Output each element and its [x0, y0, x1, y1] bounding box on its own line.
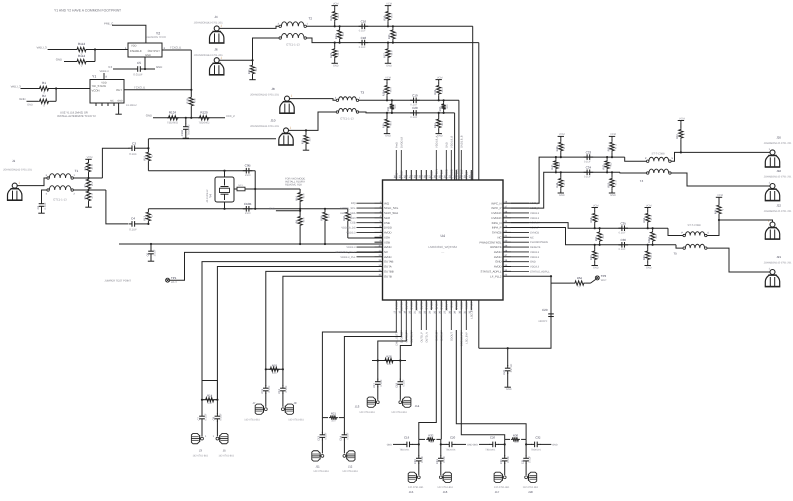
connector J9: [281, 401, 304, 422]
svg-text:ETC1-1-13: ETC1-1-13: [53, 199, 67, 202]
svg-text:TBD0402: TBD0402: [188, 124, 191, 136]
svg-text:R9: R9: [295, 219, 298, 223]
svg-text:R30: R30: [301, 139, 304, 144]
svg-text:R28: R28: [320, 215, 323, 220]
svg-text:0.1UF: 0.1UF: [204, 413, 207, 420]
svg-text:0.1UF: 0.1UF: [410, 116, 417, 119]
svg-text:C10B: C10B: [244, 202, 252, 206]
svg-text:OUTDB: OUTDB: [415, 302, 418, 311]
wire J3 group bar: [202, 381, 217, 400]
svg-text:NC1: NC1: [238, 184, 243, 187]
IC U4 bottom pin 28 GND: [449, 300, 454, 341]
svg-text:R27: R27: [383, 53, 386, 58]
note use Y1 or Y2: [57, 112, 96, 119]
svg-text:Y4: Y4: [209, 194, 213, 198]
svg-text:R26: R26: [383, 15, 386, 20]
svg-text:OUT: OUT: [116, 88, 122, 92]
connector J12: [342, 451, 358, 473]
svg-text:NC: NC: [530, 236, 534, 239]
svg-text:R47: R47: [551, 164, 554, 169]
resistor R32B: [419, 433, 441, 444]
svg-text:GND: GND: [146, 114, 152, 118]
capacitor C22: [503, 348, 513, 391]
svg-text:R124: R124: [169, 110, 177, 114]
svg-text:NC: NC: [110, 100, 114, 103]
svg-text:GND: GND: [156, 65, 162, 69]
svg-text:GND: GND: [56, 57, 62, 61]
resistor R26B: [378, 354, 401, 379]
svg-text:0.1UF: 0.1UF: [380, 379, 383, 386]
svg-text:R11: R11: [144, 155, 147, 160]
IC U4 bottom pin 17 DVDD: [394, 300, 399, 346]
svg-text:R2: R2: [42, 94, 46, 98]
IC U4 left pin 4 SDO: [350, 215, 391, 220]
svg-text:PreD: PreD: [395, 142, 398, 148]
svg-text:AVDD: AVDD: [384, 231, 392, 235]
svg-text:XOB: XOB: [384, 240, 390, 244]
svg-text:SYNCB: SYNCB: [492, 231, 502, 235]
wire to J13 group: [378, 330, 407, 361]
svg-text:TRI_STATE: TRI_STATE: [92, 84, 107, 88]
svg-text:GND: GND: [610, 194, 616, 197]
svg-text:GND: GND: [530, 261, 536, 264]
wire OUTBB to J7 group: [266, 271, 375, 369]
wire crystal top loop: [148, 139, 276, 177]
svg-text:JOHNSON142-0701-201: JOHNSON142-0701-201: [194, 54, 223, 57]
resistor R31: [387, 99, 397, 114]
svg-text:TP1: TP1: [171, 276, 177, 280]
svg-text:JOHNSON142-0701-201: JOHNSON142-0701-201: [764, 262, 792, 265]
wire XOB long line: [119, 243, 383, 245]
IC U4 bottom pin 32 LSD_BYPASS: [469, 300, 474, 319]
capacitor C4: [129, 217, 150, 232]
svg-text:J7: J7: [253, 401, 256, 405]
svg-text:GND: GND: [145, 54, 151, 57]
svg-text:UWIRE_SDA: UWIRE_SDA: [340, 212, 356, 215]
capacitor C34: [584, 166, 594, 179]
IC U4 right pin 44 INPA_N: [492, 220, 540, 225]
wire T4 top out to J20: [671, 151, 770, 161]
IC U4 bottom pin 27 SDOUT: [444, 300, 449, 314]
svg-text:J21: J21: [776, 255, 781, 259]
svg-text:VADJ_3: VADJ_3: [11, 84, 21, 88]
svg-text:142-0761-861: 142-0761-861: [408, 486, 424, 489]
svg-text:R24: R24: [335, 34, 338, 39]
svg-text:C20: C20: [450, 436, 456, 440]
svg-text:C18: C18: [361, 36, 367, 40]
svg-text:C26: C26: [490, 436, 496, 440]
IC U4 bottom pin 20 DVDD: [409, 300, 414, 343]
resistor R48: [556, 133, 566, 158]
svg-text:JOHNSON142-0701-201: JOHNSON142-0701-201: [250, 93, 279, 96]
IC U4 left pin 8 XOA: [375, 235, 391, 240]
transformer T1: [46, 169, 79, 202]
svg-text:LSD_BYP: LSD_BYP: [465, 332, 468, 344]
svg-text:OUTB: OUTB: [384, 274, 392, 278]
connector J1: [3, 159, 32, 200]
capacitor C6: [146, 244, 156, 261]
svg-text:1500: 1500: [245, 212, 251, 215]
svg-text:47.5: 47.5: [91, 193, 94, 199]
svg-text:47.5: 47.5: [563, 180, 566, 186]
svg-text:GND: GND: [450, 302, 453, 308]
svg-text:R36: R36: [513, 433, 519, 437]
resistor R9: [295, 215, 305, 244]
svg-text:SDIO_SDA: SDIO_SDA: [384, 211, 398, 215]
wire ch2 bottom line: [595, 244, 676, 246]
IC U4 top pin 62 NC: [404, 170, 409, 180]
IC U4 top pin 55 INPB_P: [439, 169, 444, 180]
svg-text:R7: R7: [84, 183, 87, 187]
wire LF_PLL2 loop: [479, 275, 552, 349]
wire T4 bottom out to J18: [671, 173, 770, 186]
wire to J11: [322, 330, 396, 418]
svg-text:AVDD: AVDD: [460, 302, 463, 309]
svg-text:DVDD: DVDD: [455, 302, 458, 309]
svg-text:C17: C17: [373, 382, 376, 387]
svg-text:C24: C24: [436, 459, 439, 464]
resistor R4: [84, 156, 94, 178]
svg-text:0.1UF: 0.1UF: [359, 30, 366, 33]
svg-text:C23: C23: [414, 459, 417, 464]
resistor R5: [84, 190, 94, 207]
svg-text:JOHNSON142-0701-201: JOHNSON142-0701-201: [250, 125, 279, 128]
svg-text:LSD_BYPASS: LSD_BYPASS: [470, 302, 473, 319]
wire J13 group bar: [372, 359, 406, 361]
svg-text:100: 100: [446, 104, 449, 109]
capacitor C17: [373, 379, 383, 400]
resistor R27: [383, 42, 393, 68]
svg-text:VDD1.8_A: VDD1.8_A: [435, 135, 438, 148]
svg-text:C13: C13: [318, 435, 321, 440]
resistor R64: [570, 276, 596, 289]
svg-text:OUTAB: OUTAB: [384, 260, 394, 264]
svg-text:R4: R4: [84, 166, 87, 170]
connector J22: [764, 204, 792, 240]
capacitor C30: [500, 444, 510, 475]
wire to J12: [344, 330, 401, 418]
oscillator Y1: [90, 70, 124, 106]
capacitor C36: [618, 238, 628, 251]
capacitor C23: [414, 444, 424, 475]
IC U4 bottom pin 30 AVDD: [459, 300, 464, 346]
svg-text:0.1UF: 0.1UF: [268, 385, 271, 392]
svg-text:VDD: VDD: [101, 82, 107, 85]
svg-text:INSTALL ALTERNATE TCXO Y2: INSTALL ALTERNATE TCXO Y2: [57, 115, 96, 118]
svg-text:CSB: CSB: [350, 222, 356, 225]
svg-text:C19: C19: [412, 94, 418, 98]
svg-text:0.1UF: 0.1UF: [507, 455, 510, 462]
resistor R51: [607, 133, 617, 158]
svg-text:AVDD: AVDD: [494, 250, 502, 254]
wire T5 bottom out to J21: [707, 248, 770, 272]
IC U4 top pin 61 NC: [409, 170, 414, 180]
svg-text:T3: T3: [360, 91, 364, 95]
svg-text:JUMPER TEST POINT: JUMPER TEST POINT: [104, 279, 131, 282]
IC U4 left pin 13 OUTAB: [375, 259, 394, 264]
wire ch1 to T4: [620, 157, 647, 173]
svg-text:AVDD: AVDD: [465, 302, 468, 309]
svg-text:VDD3.3: VDD3.3: [346, 246, 356, 249]
resistor R55: [595, 227, 605, 246]
IC U4 top pin 59 NC: [419, 170, 424, 180]
svg-text:VERSION TCXO: VERSION TCXO: [146, 36, 166, 39]
IC U4 top pin 54 DVDDB: [444, 142, 449, 180]
IC U4 top pin 52 INPD_N: [454, 169, 459, 180]
svg-text:Y1 AND Y2 HAVE A COMMON FOOTPR: Y1 AND Y2 HAVE A COMMON FOOTPRINT: [54, 9, 121, 13]
svg-text:OUTD_P: OUTD_P: [420, 332, 423, 343]
svg-text:R48: R48: [556, 146, 559, 151]
svg-text:100: 100: [387, 363, 392, 366]
wire T3 to IC verticals: [455, 100, 459, 180]
svg-text:J12: J12: [348, 464, 353, 468]
IC U4 left pin 6 DVDD: [341, 225, 392, 230]
svg-text:TP3: TP3: [601, 274, 607, 278]
wire T2 filter bottom line: [335, 42, 479, 44]
svg-text:JOHNSON142-0701-201: JOHNSON142-0701-201: [194, 22, 223, 25]
IC U4 top pin 51 INPD_P: [459, 135, 464, 180]
IC U4 bottom pin 22 OUTD: [419, 300, 424, 343]
connector J8: [250, 87, 295, 113]
svg-text:R19: R19: [187, 98, 190, 103]
resistor R59: [590, 244, 600, 270]
capacitor C5: [108, 57, 162, 77]
IC U4 left pin 16 OUTB: [375, 274, 392, 279]
svg-text:201: 201: [91, 181, 94, 186]
IC U4 bottom pin 21 OUTDB: [414, 300, 419, 314]
svg-text:0.1UF: 0.1UF: [584, 176, 591, 179]
svg-text:C20: C20: [412, 106, 418, 110]
capacitor C18B: [396, 379, 406, 400]
wire J1 to T1: [17, 178, 47, 186]
resistor R36: [505, 433, 526, 444]
svg-text:0.1UF: 0.1UF: [528, 455, 531, 462]
resistor R16: [265, 363, 284, 386]
svg-text:R32: R32: [343, 215, 346, 220]
resistor R25: [388, 25, 398, 44]
svg-text:49.152MHZ: 49.152MHZ: [206, 189, 209, 203]
IC U4 right pin 37 AVDD: [494, 254, 540, 259]
capacitor C24: [436, 444, 446, 475]
wire J7 group bar: [266, 368, 283, 370]
wire Y1 gnd: [115, 103, 137, 114]
IC U4 bottom pin 23 DVDD: [424, 300, 429, 343]
IC U4 bottom pin 18 OUTCB: [399, 300, 404, 343]
svg-text:C11: C11: [261, 388, 264, 393]
capacitor C20: [410, 106, 420, 119]
crystal Y4: [206, 177, 255, 203]
resistor R14: [201, 394, 219, 405]
svg-text:TCXO_E: TCXO_E: [170, 46, 181, 50]
svg-text:TBD0201: TBD0201: [531, 449, 542, 452]
svg-text:R60: R60: [643, 255, 646, 260]
svg-text:142-0761-861: 142-0761-861: [193, 454, 209, 457]
wire to J14 group: [400, 330, 411, 361]
svg-text:49.9: 49.9: [389, 120, 392, 126]
resistor R28: [320, 209, 330, 244]
svg-text:JOHNSON142-0701-201: JOHNSON142-0701-201: [764, 142, 792, 145]
svg-text:REMOVE R28: REMOVE R28: [285, 184, 302, 187]
IC U4 left pin 7 AVDD: [346, 230, 391, 235]
IC U4 right pin 38 AVDD: [494, 249, 540, 254]
svg-text:47.5: 47.5: [650, 252, 653, 258]
svg-text:C102: C102: [181, 129, 184, 136]
svg-text:0.1UF: 0.1UF: [421, 455, 424, 462]
svg-text:INPA_N: INPA_N: [492, 221, 502, 225]
svg-text:C16: C16: [361, 20, 367, 24]
svg-text:LMK04816_WQFN64: LMK04816_WQFN64: [428, 245, 457, 249]
IC U4 bottom pin 25 DACA: [434, 300, 439, 341]
wire PREF net into Y2 top: [104, 21, 146, 43]
svg-text:J5: J5: [223, 449, 226, 453]
svg-text:C8: C8: [213, 416, 216, 420]
svg-text:49.9: 49.9: [441, 120, 444, 126]
svg-text:142-0761-861: 142-0761-861: [313, 470, 329, 473]
svg-text:1500: 1500: [245, 174, 251, 177]
svg-text:VDD3.3: VDD3.3: [530, 266, 540, 269]
wire T3 filter top line: [387, 99, 459, 101]
svg-text:100: 100: [514, 441, 519, 444]
svg-text:100: 100: [342, 32, 345, 37]
IC U4 bottom pin 24 DACB: [429, 300, 434, 314]
IC U4 bottom pin 26 DVDD: [439, 300, 444, 341]
wire ch1 bottom line: [561, 171, 620, 173]
capacitor C3: [129, 142, 150, 156]
IC U4 right pin 41 NC: [497, 235, 533, 240]
svg-text:XOA: XOA: [384, 235, 390, 239]
resistor R113: [37, 42, 128, 56]
resistor R21: [322, 411, 344, 433]
connector J3: [191, 433, 208, 457]
wire INPC_N to ch1 top: [511, 157, 561, 203]
svg-text:NC: NC: [497, 235, 501, 239]
wire Y1 out: [124, 85, 192, 91]
IC U4 left pin 1 IRQ: [351, 201, 390, 206]
wire ch2 top line: [595, 227, 668, 229]
svg-text:R31: R31: [387, 106, 390, 111]
svg-text:C29: C29: [542, 308, 548, 312]
svg-text:INPA_P: INPA_P: [492, 226, 502, 230]
wire ch1 top line: [561, 156, 625, 158]
IC U4 right pin 47 INPC_P: [491, 205, 539, 210]
svg-text:R33: R33: [434, 89, 437, 94]
svg-text:INPC_N: INPC_N: [491, 201, 501, 205]
wire J8 to T3: [289, 99, 336, 101]
svg-text:DACB: DACB: [430, 302, 433, 309]
IC U4 top pin 49 AVDD: [469, 170, 474, 180]
wire XOA route: [348, 237, 383, 239]
resistor R35: [439, 99, 449, 114]
IC U4 bottom pin 29 DVDD: [454, 300, 459, 314]
svg-text:T4: T4: [640, 179, 644, 183]
capacitor C35: [618, 221, 628, 234]
svg-text:C18: C18: [396, 382, 399, 387]
transformer T2: [278, 17, 313, 47]
svg-text:C32: C32: [535, 436, 541, 440]
svg-text:VCM: VCM: [385, 76, 391, 79]
resistor R58: [590, 204, 600, 229]
IC U4 top pin 53 DVDDB: [449, 135, 454, 180]
wire to J19 far elbow: [456, 330, 526, 439]
svg-text:VDD3.3: VDD3.3: [530, 217, 540, 220]
wire T1 primary out: [73, 148, 129, 179]
svg-text:Y1: Y1: [92, 75, 96, 79]
svg-text:142-0761-861: 142-0761-861: [342, 470, 358, 473]
svg-text:J6: J6: [214, 48, 218, 52]
svg-text:R29: R29: [382, 123, 385, 128]
svg-text:VDD3.3_PLL: VDD3.3_PLL: [340, 256, 356, 259]
IC U4 right pin 43 INPA_P: [492, 225, 540, 230]
svg-text:__: __: [440, 250, 444, 253]
svg-text:C36: C36: [620, 238, 626, 242]
IC U4 top pin 56 INPB_N: [434, 135, 439, 180]
svg-text:R35: R35: [439, 106, 442, 111]
IC U4 top pin 63 DVDD: [399, 136, 404, 180]
svg-text:R120: R120: [200, 110, 208, 114]
svg-text:LF_PLL2: LF_PLL2: [490, 274, 502, 278]
IC U4 right pin 46 DVDDC: [492, 210, 540, 215]
svg-text:JOHNSON142-0701-201: JOHNSON142-0701-201: [764, 176, 792, 179]
svg-text:J14: J14: [415, 404, 420, 408]
transformer T4: [640, 153, 674, 184]
resistor R26: [383, 2, 393, 27]
svg-text:T5: T5: [673, 252, 677, 256]
resistor R20: [248, 60, 258, 79]
svg-text:47.5: 47.5: [597, 215, 600, 221]
resistor R10: [295, 189, 305, 203]
svg-text:100: 100: [255, 67, 258, 72]
svg-text:0.1UF: 0.1UF: [219, 413, 222, 420]
svg-text:SYNCB: SYNCB: [530, 231, 539, 234]
svg-text:STATUS_ADPLL: STATUS_ADPLL: [480, 269, 501, 273]
wire T2 outputs: [306, 26, 334, 42]
IC U4 top pin 57 DVDD: [429, 170, 434, 180]
IC U4 right pin 45 DVDDC: [492, 215, 540, 220]
svg-text:OUTA: OUTA: [384, 265, 392, 269]
IC U4 left pin 14 OUTA: [375, 264, 392, 269]
wire crystal bottom loop: [148, 202, 347, 210]
IC U4 left pin 15 OUTBB: [375, 269, 394, 274]
capacitor C11: [261, 385, 271, 407]
svg-text:AVDD: AVDD: [384, 245, 392, 249]
IC U4 left pin 11 NC: [336, 249, 388, 254]
svg-text:VDD3.3: VDD3.3: [530, 212, 540, 215]
svg-text:GND: GND: [27, 104, 33, 107]
svg-text:GND: GND: [552, 443, 558, 446]
svg-text:49.9: 49.9: [337, 50, 340, 56]
capacitor C8: [213, 400, 223, 437]
capacitor C19B: [387, 436, 420, 452]
svg-text:R5: R5: [84, 195, 87, 199]
connector J6: [194, 48, 225, 75]
svg-text:TBD0402: TBD0402: [199, 121, 211, 124]
IC U4 bottom pin 19 OUTC: [404, 300, 409, 343]
note VXO usage: [285, 178, 305, 187]
IC U4 right pin 36 GND: [495, 259, 536, 264]
svg-text:ST-T-C088: ST-T-C088: [688, 224, 701, 227]
svg-text:R64: R64: [577, 276, 583, 280]
svg-text:VDD1.8_DS: VDD1.8_DS: [341, 227, 355, 230]
svg-text:J8: J8: [271, 87, 275, 91]
svg-text:R55: R55: [595, 236, 598, 241]
IC U4 left pin 3 SDIO_SDA: [340, 210, 398, 215]
IC U4 right pin 34 STATUS_ADPLL: [480, 269, 550, 274]
svg-text:J20: J20: [776, 136, 781, 140]
connector J14: [391, 397, 419, 414]
svg-text:GND: GND: [445, 142, 448, 148]
IC U4 body: [383, 180, 504, 300]
resistor R56A: [648, 227, 658, 246]
